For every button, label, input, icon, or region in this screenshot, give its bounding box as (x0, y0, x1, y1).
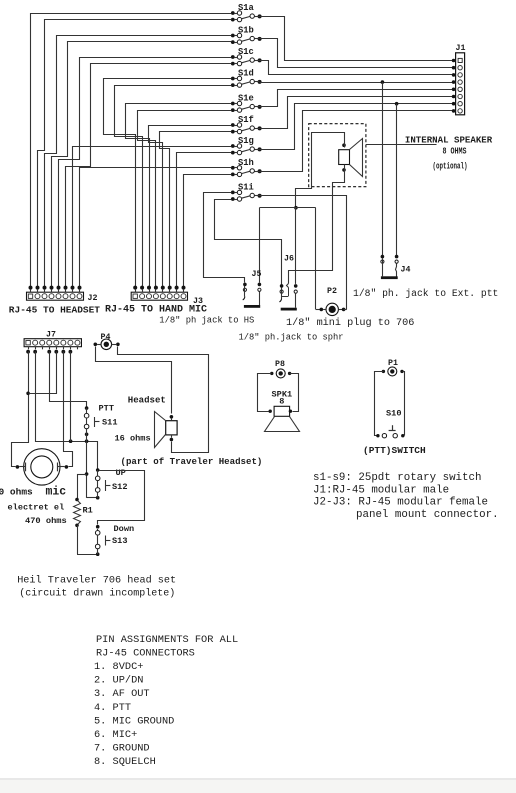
svg-text:J7: J7 (46, 330, 56, 339)
svg-text:Down: Down (114, 524, 135, 534)
svg-text:Headset: Headset (128, 395, 166, 406)
svg-text:1/8" mini plug to 706: 1/8" mini plug to 706 (286, 317, 414, 329)
svg-text:3. AF OUT: 3. AF OUT (94, 688, 150, 700)
svg-text:6. MIC+: 6. MIC+ (94, 729, 137, 741)
svg-text:RJ-45 TO HEADSET: RJ-45 TO HEADSET (9, 305, 101, 316)
svg-text:RJ-45 TO HAND MIC: RJ-45 TO HAND MIC (105, 305, 207, 316)
svg-text:Heil Traveler 706 head set: Heil Traveler 706 head set (17, 574, 176, 586)
svg-text:PIN ASSIGNMENTS FOR ALL: PIN ASSIGNMENTS FOR ALL (96, 634, 238, 646)
svg-text:electret el: electret el (8, 503, 65, 513)
svg-text:2. UP/DN: 2. UP/DN (94, 675, 143, 687)
svg-text:8: 8 (279, 396, 284, 406)
svg-text:R1: R1 (83, 506, 93, 516)
svg-text:(part of Traveler Headset): (part of Traveler Headset) (121, 456, 263, 467)
svg-text:7. GROUND: 7. GROUND (94, 742, 150, 754)
svg-text:panel mount connector.: panel mount connector. (356, 509, 499, 521)
svg-text:1/8" ph.jack to sphr: 1/8" ph.jack to sphr (239, 333, 344, 343)
svg-text:INTERNAL SPEAKER: INTERNAL SPEAKER (405, 134, 493, 145)
svg-text:1. 8VDC+: 1. 8VDC+ (94, 661, 143, 673)
svg-text:(PTT)SWITCH: (PTT)SWITCH (363, 445, 426, 456)
svg-text:4. PTT: 4. PTT (94, 702, 131, 714)
svg-text:s1-s9: 25pdt rotary switch: s1-s9: 25pdt rotary switch (313, 472, 481, 484)
svg-text:S10: S10 (386, 408, 401, 418)
svg-text:RJ-45 CONNECTORS: RJ-45 CONNECTORS (96, 648, 195, 660)
svg-text:P2: P2 (327, 287, 337, 296)
svg-text:mic: mic (46, 486, 67, 499)
svg-text:470 ohms: 470 ohms (25, 516, 67, 526)
svg-text:PTT: PTT (99, 404, 114, 414)
svg-text:16 ohms: 16 ohms (115, 433, 151, 443)
svg-text:J6: J6 (284, 255, 294, 264)
svg-text:8 OHMS: 8 OHMS (443, 146, 467, 156)
svg-text:P8: P8 (275, 360, 285, 369)
svg-text:S12: S12 (112, 482, 127, 492)
svg-text:S13: S13 (112, 536, 127, 546)
svg-text:5. MIC GROUND: 5. MIC GROUND (94, 715, 174, 727)
svg-text:1/8" ph. jack to Ext. ptt: 1/8" ph. jack to Ext. ptt (353, 288, 498, 299)
svg-text:600 ohms: 600 ohms (0, 487, 33, 498)
svg-text:(optional): (optional) (433, 162, 468, 172)
svg-text:S11: S11 (102, 418, 117, 428)
svg-text:J4: J4 (401, 266, 411, 275)
svg-text:J2-J3: RJ-45 modular female: J2-J3: RJ-45 modular female (313, 497, 488, 509)
svg-text:P1: P1 (388, 359, 398, 368)
svg-text:1/8" ph jack to HS: 1/8" ph jack to HS (159, 316, 254, 326)
svg-text:8. SQUELCH: 8. SQUELCH (94, 756, 156, 768)
svg-text:P4: P4 (101, 333, 111, 342)
svg-text:UP: UP (116, 468, 126, 478)
svg-text:J2: J2 (88, 294, 98, 303)
svg-text:J5: J5 (252, 270, 262, 279)
svg-text:(circuit drawn incomplete): (circuit drawn incomplete) (19, 587, 175, 599)
svg-text:J1:RJ-45 modular male: J1:RJ-45 modular male (313, 484, 449, 496)
svg-text:J1: J1 (456, 44, 466, 53)
